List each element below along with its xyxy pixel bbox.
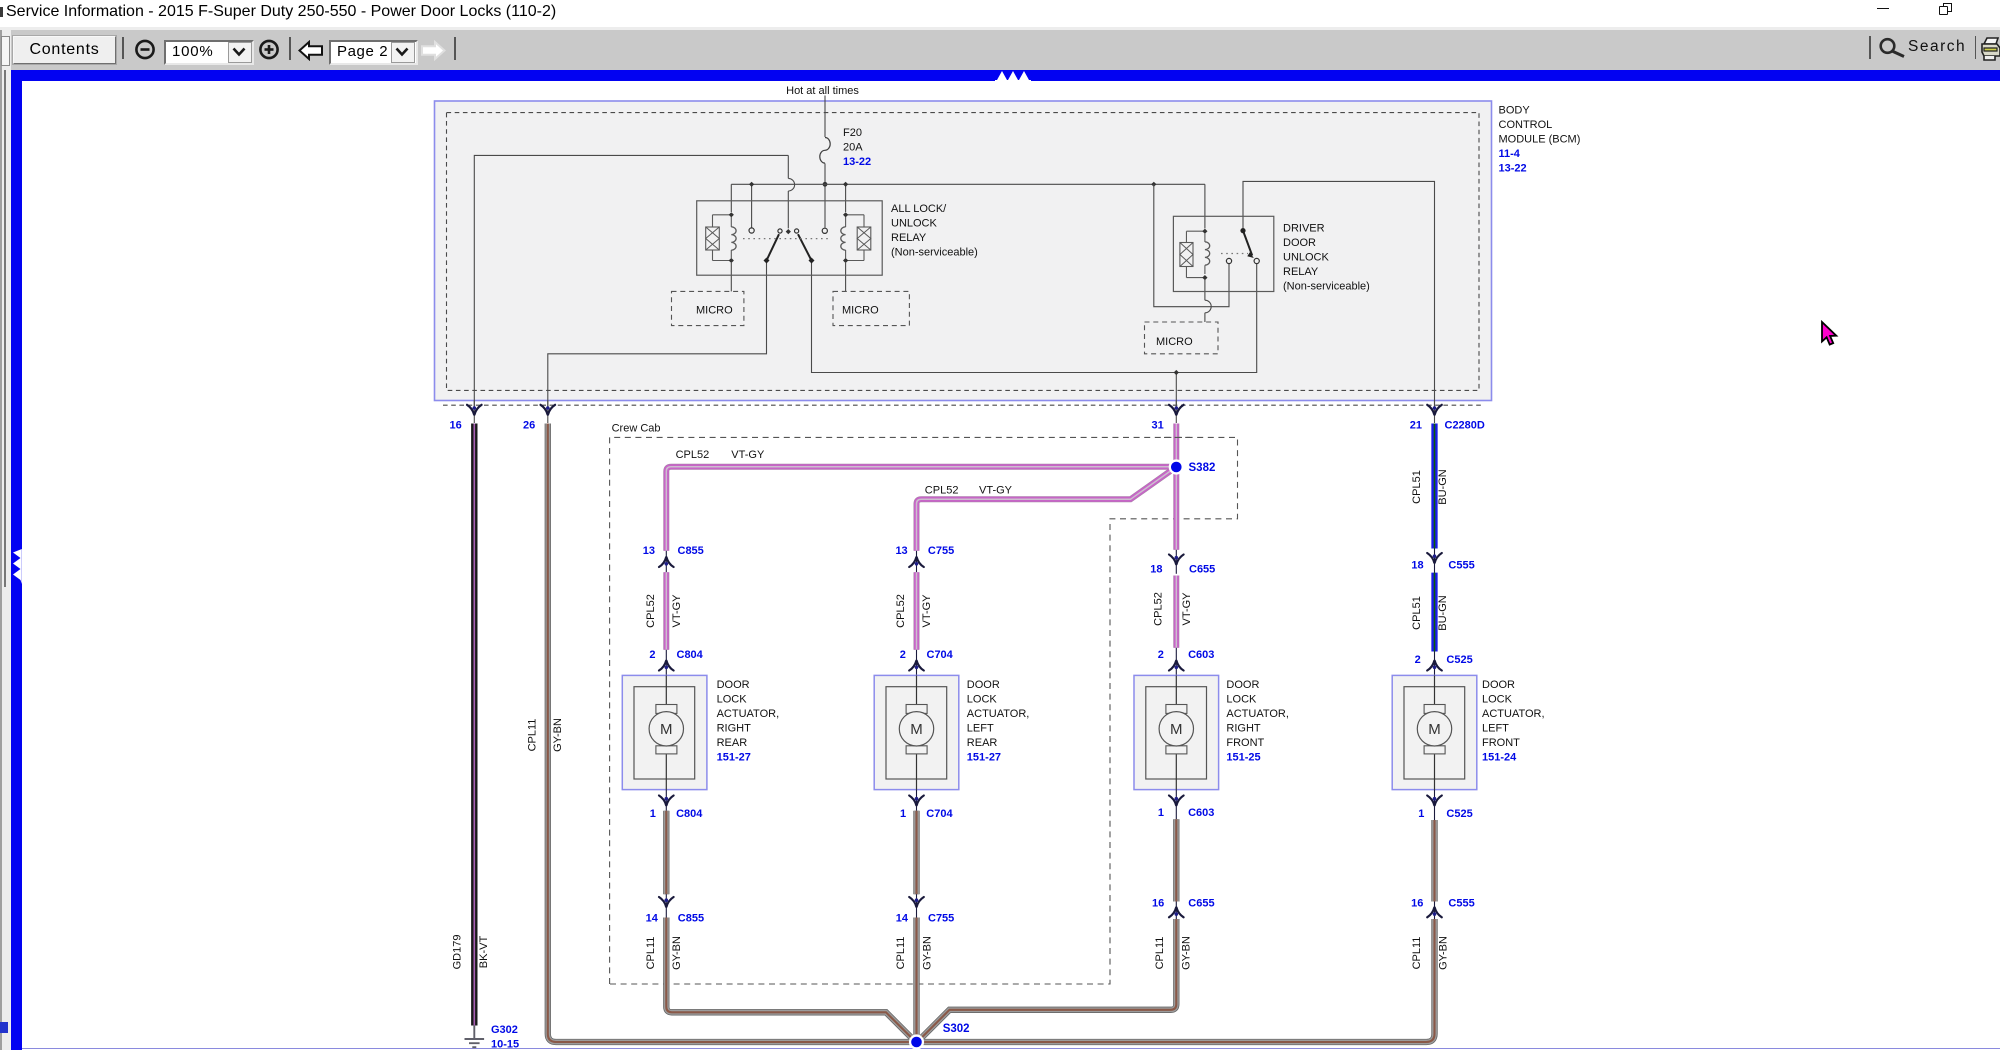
wire CPL11 GY-BN C525 to C555 — [1431, 820, 1437, 902]
svg-text:10-15: 10-15 — [491, 1039, 519, 1050]
BCM inner dashed outline — [447, 113, 1480, 391]
Crew Cab dashed region — [610, 437, 1238, 984]
BCM exit arrow pin 21 — [1434, 401, 1436, 424]
window title bar — [0, 0, 2000, 27]
svg-text:DOOR: DOOR — [1226, 679, 1259, 691]
wire: pin31 run (unlock arm pivot and driver relay output to BCM pin 31) — [812, 263, 1257, 373]
left window strip — [0, 30, 11, 1050]
svg-text:M: M — [910, 721, 923, 738]
wire CPL52 VT-GY C755 to C704 — [914, 572, 920, 650]
svg-text:14: 14 — [896, 913, 909, 925]
svg-text:18: 18 — [1150, 564, 1162, 576]
svg-text:1: 1 — [900, 808, 906, 820]
svg-text:2: 2 — [649, 649, 655, 661]
restore button — [1943, 3, 1952, 12]
svg-text:18: 18 — [1411, 560, 1423, 572]
svg-text:C603: C603 — [1188, 649, 1214, 661]
svg-text:RIGHT: RIGHT — [717, 723, 752, 735]
svg-text:BK-VT: BK-VT — [478, 936, 490, 969]
minimize button — [1877, 8, 1889, 10]
svg-text:RELAY: RELAY — [891, 232, 927, 244]
actuator label right rear — [717, 679, 780, 764]
splice S382 — [1169, 459, 1184, 474]
svg-text:C603: C603 — [1188, 807, 1214, 819]
ground G302 symbol — [465, 1026, 485, 1048]
svg-text:M: M — [1428, 721, 1441, 738]
wire CPL11 GY-BN C704 to C755 — [913, 811, 919, 894]
Contents button — [13, 36, 116, 64]
svg-text:CPL51: CPL51 — [1411, 470, 1423, 504]
svg-text:14: 14 — [646, 913, 659, 925]
svg-text:C804: C804 — [676, 808, 703, 820]
driver switch contacts — [1254, 258, 1259, 263]
svg-text:S382: S382 — [1189, 462, 1216, 474]
forward arrow icon (disabled) — [419, 40, 447, 61]
relay label — [891, 203, 978, 258]
svg-text:ACTUATOR,: ACTUATOR, — [1226, 708, 1289, 720]
motor M left rear — [899, 675, 933, 789]
blue page frame: top bar — [11, 70, 2000, 81]
door lock actuator left front box — [1392, 675, 1477, 789]
svg-text:(Non-serviceable): (Non-serviceable) — [891, 246, 978, 258]
actuator label left front — [1482, 679, 1545, 764]
switch fixed contacts — [749, 228, 754, 233]
svg-text:21: 21 — [1410, 420, 1422, 432]
connector C525 pin1 (below actuator) — [1434, 790, 1436, 820]
motor M left front — [1417, 675, 1451, 789]
switch common node — [786, 229, 791, 234]
page-break zigzag on top blue bar — [993, 70, 1033, 83]
separators — [122, 37, 124, 59]
svg-text:13: 13 — [643, 545, 655, 557]
svg-text:CPL11: CPL11 — [1154, 937, 1166, 970]
wire hop over feed bus — [788, 178, 794, 191]
svg-text:LOCK: LOCK — [967, 694, 998, 706]
svg-text:ACTUATOR,: ACTUATOR, — [1482, 708, 1545, 720]
wire: driver coil to MICRO with hop — [1204, 280, 1206, 322]
relay: ALL LOCK/UNLOCK RELAY box — [697, 201, 883, 275]
svg-text:151-25: 151-25 — [1226, 752, 1260, 764]
svg-text:VT-GY: VT-GY — [1181, 592, 1193, 626]
svg-text:MICRO: MICRO — [1156, 336, 1193, 348]
fuse F20 label — [843, 127, 871, 168]
svg-text:CPL11: CPL11 — [645, 937, 657, 970]
inductor right coil — [841, 227, 846, 250]
wire CPL11 GY-BN C555 to S302 — [922, 919, 1435, 1042]
wire: fuse output down to relay contact — [824, 163, 826, 227]
driver coil connections — [1186, 231, 1204, 277]
svg-text:CPL51: CPL51 — [1411, 596, 1423, 630]
svg-text:VT-GY: VT-GY — [671, 594, 683, 628]
relay label — [1283, 223, 1370, 293]
page-break zigzag on left blue bar — [11, 548, 22, 585]
svg-text:VT-GY: VT-GY — [731, 449, 765, 461]
svg-text:DOOR: DOOR — [1283, 237, 1316, 249]
svg-text:LOCK: LOCK — [1226, 694, 1257, 706]
connector C755 pin14 — [916, 894, 918, 917]
svg-text:Crew Cab: Crew Cab — [612, 423, 661, 435]
strip between title and toolbar — [0, 27, 2000, 30]
resistor element right coil — [857, 227, 871, 250]
svg-text:C755: C755 — [928, 545, 954, 557]
wire: driver relay movable contact run — [1154, 184, 1229, 306]
svg-text:C855: C855 — [678, 545, 704, 557]
BCM name label — [1499, 105, 1581, 175]
svg-text:C804: C804 — [677, 649, 704, 661]
svg-text:C525: C525 — [1446, 808, 1472, 820]
svg-text:1: 1 — [1418, 808, 1424, 820]
left coil connections — [713, 215, 732, 261]
svg-text:CPL52: CPL52 — [676, 449, 710, 461]
door lock actuator right front box — [1134, 675, 1219, 789]
svg-text:CPL52: CPL52 — [925, 485, 959, 497]
svg-text:CPL52: CPL52 — [1153, 592, 1165, 626]
wire CPL11 GY-BN C804 to C855 — [663, 811, 669, 894]
fuse F20 symbol — [820, 138, 830, 164]
svg-text:GY-BN: GY-BN — [671, 936, 683, 970]
svg-text:UNLOCK: UNLOCK — [891, 217, 938, 229]
svg-text:GY-BN: GY-BN — [921, 936, 933, 970]
wire: coil feed bus y=184 — [731, 183, 1205, 185]
wire: left fixed contact riser — [751, 184, 753, 228]
mouse cursor — [1818, 320, 1842, 350]
svg-text:MODULE (BCM): MODULE (BCM) — [1499, 134, 1581, 146]
svg-text:FRONT: FRONT — [1482, 737, 1520, 749]
BCM exit arrow pin 26 — [547, 401, 549, 424]
blue page frame: left bar — [11, 70, 22, 1050]
MICRO driver box 2 — [833, 291, 909, 325]
svg-text:C755: C755 — [928, 913, 954, 925]
driver coil junctions — [1202, 229, 1207, 234]
wire CPL11 GY-BN C603 to C655 — [1173, 819, 1179, 901]
connector C655 pin18 (inline) — [1175, 550, 1177, 574]
wire: left relay coil to MICRO — [730, 263, 732, 291]
MICRO driver box 3 — [1145, 322, 1219, 354]
svg-text:C704: C704 — [926, 808, 953, 820]
bottom page edge line — [22, 1048, 2000, 1050]
resistor element driver coil — [1180, 243, 1193, 267]
svg-text:GY-BN: GY-BN — [552, 718, 564, 752]
back arrow icon — [297, 40, 325, 61]
svg-text:1: 1 — [650, 808, 656, 820]
svg-text:26: 26 — [523, 420, 535, 432]
svg-text:2: 2 — [900, 649, 906, 661]
connector C555 pin16 — [1434, 902, 1436, 920]
svg-text:C655: C655 — [1188, 898, 1214, 910]
svg-text:S302: S302 — [943, 1023, 970, 1035]
svg-text:11-4: 11-4 — [1499, 148, 1521, 160]
Page 2 combo — [329, 40, 418, 65]
svg-text:VT-GY: VT-GY — [979, 485, 1013, 497]
toolbar — [0, 30, 2000, 70]
svg-text:RIGHT: RIGHT — [1226, 723, 1261, 735]
svg-text:16: 16 — [450, 420, 462, 432]
svg-text:C555: C555 — [1448, 898, 1474, 910]
BCM exit arrow pin 16 — [473, 401, 475, 424]
left coil junctions — [729, 212, 734, 217]
actuator label left rear — [967, 679, 1030, 764]
svg-text:M: M — [1170, 721, 1183, 738]
svg-text:CPL52: CPL52 — [895, 594, 907, 628]
junction diamond pin31 — [1174, 370, 1179, 375]
svg-text:MICRO: MICRO — [842, 305, 879, 317]
svg-text:DRIVER: DRIVER — [1283, 223, 1325, 235]
BCM module box (Body Control Module) — [435, 101, 1492, 401]
wire: pin21 run (driver relay fixed contact to BCM pin 21 C2280D) — [1243, 181, 1435, 409]
svg-text:M: M — [660, 721, 673, 738]
svg-text:REAR: REAR — [717, 737, 748, 749]
svg-text:LEFT: LEFT — [1482, 723, 1509, 735]
junction dot fuse/feed bus — [823, 182, 828, 187]
svg-text:LOCK: LOCK — [1482, 694, 1513, 706]
svg-text:CPL11: CPL11 — [895, 937, 907, 970]
MICRO driver box 1 — [672, 291, 744, 325]
wire CPL11 GY-BN (pin26 to splice S302) — [548, 424, 911, 1043]
door lock actuator left rear box — [874, 675, 959, 789]
connector C655 pin16 — [1175, 902, 1177, 920]
svg-text:CONTROL: CONTROL — [1499, 119, 1553, 131]
switch arm tips — [778, 229, 782, 233]
svg-text:31: 31 — [1152, 420, 1164, 432]
switch arms (lock / unlock) — [767, 234, 812, 260]
100% combo — [164, 40, 254, 65]
splice S302 — [909, 1034, 924, 1049]
svg-text:ALL LOCK/: ALL LOCK/ — [891, 203, 947, 215]
connector C704 pin1 (below actuator) — [916, 790, 918, 811]
connector C804 pin1 (below actuator) — [665, 790, 667, 811]
search icon + label — [1878, 37, 1908, 61]
svg-text:BU-GN: BU-GN — [1437, 595, 1449, 631]
svg-text:ACTUATOR,: ACTUATOR, — [717, 708, 780, 720]
svg-text:LOCK: LOCK — [717, 694, 748, 706]
svg-text:C655: C655 — [1189, 564, 1215, 576]
svg-text:C525: C525 — [1446, 654, 1472, 666]
wire: driver relay coil riser — [1204, 184, 1206, 228]
switch arm pivots — [764, 258, 770, 264]
svg-text:ACTUATOR,: ACTUATOR, — [967, 708, 1030, 720]
right coil connections — [846, 215, 864, 261]
svg-text:F20: F20 — [843, 127, 862, 139]
wire: left coil top riser — [730, 184, 732, 212]
svg-text:C855: C855 — [678, 913, 704, 925]
svg-text:CPL52: CPL52 — [645, 594, 657, 628]
svg-text:151-27: 151-27 — [967, 752, 1001, 764]
driver mechanical link dotted — [1221, 253, 1248, 255]
svg-text:BODY: BODY — [1499, 105, 1531, 117]
door lock actuator right rear box — [622, 675, 707, 789]
svg-text:2: 2 — [1158, 649, 1164, 661]
zoom-in icon — [257, 37, 281, 62]
wire CPL51 BU-GN C555 to C525 — [1431, 573, 1437, 652]
svg-text:Hot at all times: Hot at all times — [786, 85, 859, 97]
wire: pin16 run (switch common to BCM pin 16) — [474, 155, 788, 409]
svg-text:RELAY: RELAY — [1283, 266, 1319, 278]
wire CPL52 VT-GY branch to C755 — [917, 470, 1173, 551]
junction diamonds on feed bus — [749, 182, 754, 187]
svg-text:C704: C704 — [927, 649, 954, 661]
crew cab dashed overlay at pin31 wire crossing — [1164, 436, 1190, 438]
wire CPL52 VT-GY branch to C855 — [666, 467, 1171, 551]
svg-text:DOOR: DOOR — [1482, 679, 1515, 691]
mechanical link dotted — [743, 238, 831, 240]
inductor left coil — [731, 227, 736, 250]
svg-text:16: 16 — [1411, 898, 1423, 910]
wire: right relay coil to MICRO — [845, 263, 847, 291]
right coil junctions — [843, 212, 848, 217]
printer icon — [1981, 36, 2000, 62]
driver switch fixed contact — [1240, 228, 1245, 233]
svg-text:13-22: 13-22 — [1499, 163, 1527, 175]
wire CPL11 GY-BN C655 to S302 — [920, 919, 1177, 1040]
relay: DRIVER DOOR UNLOCK RELAY box — [1173, 216, 1273, 291]
driver switch arm — [1243, 231, 1252, 256]
svg-text:C2280D: C2280D — [1445, 420, 1485, 432]
motor M right front — [1159, 675, 1193, 789]
svg-text:GY-BN: GY-BN — [1181, 936, 1193, 970]
svg-text:GD179: GD179 — [452, 935, 464, 970]
zoom-out icon — [133, 37, 157, 62]
svg-text:DOOR: DOOR — [967, 679, 1000, 691]
svg-text:1: 1 — [1158, 807, 1164, 819]
svg-text:151-24: 151-24 — [1482, 752, 1517, 764]
svg-text:DOOR: DOOR — [717, 679, 750, 691]
svg-text:2: 2 — [1415, 654, 1421, 666]
resistor element left coil — [706, 227, 720, 250]
connector C555 pin18 (inline) — [1434, 549, 1436, 573]
svg-text:13: 13 — [895, 545, 907, 557]
ground label G302 10-15 — [491, 1024, 519, 1050]
svg-text:VT-GY: VT-GY — [921, 594, 933, 628]
wire CPL52 VT-GY C655 to C603 — [1173, 576, 1179, 648]
svg-text:C555: C555 — [1448, 560, 1474, 572]
actuator label right front — [1226, 679, 1289, 764]
connector C603 pin1 (below actuator) — [1175, 790, 1177, 820]
svg-text:16: 16 — [1152, 898, 1164, 910]
svg-text:GY-BN: GY-BN — [1438, 936, 1450, 970]
svg-text:REAR: REAR — [967, 737, 998, 749]
wire: switch common riser with hop — [787, 155, 789, 228]
svg-text:G302: G302 — [491, 1024, 518, 1036]
svg-text:13-22: 13-22 — [843, 156, 871, 168]
BCM exit arrow pin 31 — [1175, 401, 1177, 424]
svg-text:20A: 20A — [843, 141, 863, 153]
svg-text:(Non-serviceable): (Non-serviceable) — [1283, 281, 1370, 293]
svg-text:CPL11: CPL11 — [1411, 937, 1423, 970]
wire: battery feed from Hot at all times through fuse — [824, 96, 826, 138]
motor M right rear — [649, 675, 683, 789]
inductor driver coil — [1205, 242, 1210, 265]
svg-text:FRONT: FRONT — [1226, 737, 1264, 749]
wire CPL11 GY-BN C755 to S302 — [913, 918, 919, 1039]
svg-text:BU-GN: BU-GN — [1437, 469, 1449, 505]
wire GD179 BK-VT (pin16 to ground G302) — [471, 424, 477, 1026]
svg-text:LEFT: LEFT — [967, 723, 994, 735]
svg-text:MICRO: MICRO — [696, 305, 733, 317]
svg-text:CPL11: CPL11 — [526, 719, 538, 752]
wire CPL51 BU-GN C2280D to C555 — [1431, 424, 1437, 549]
wire CPL52 VT-GY C855 to C804 — [663, 572, 669, 650]
wire: right coil top riser — [845, 184, 847, 212]
wire: pin26 run (lock arm pivot to BCM pin 26) — [548, 263, 767, 410]
connector C855 pin14 — [665, 894, 667, 917]
wire CPL52 VT-GY pin31 down through S382 to C655 — [1173, 424, 1179, 550]
svg-text:151-27: 151-27 — [717, 752, 751, 764]
cab boundary dashed line below BCM — [443, 404, 1484, 406]
wire CPL11 GY-BN C855 to S302 — [666, 918, 914, 1041]
svg-text:UNLOCK: UNLOCK — [1283, 252, 1330, 264]
